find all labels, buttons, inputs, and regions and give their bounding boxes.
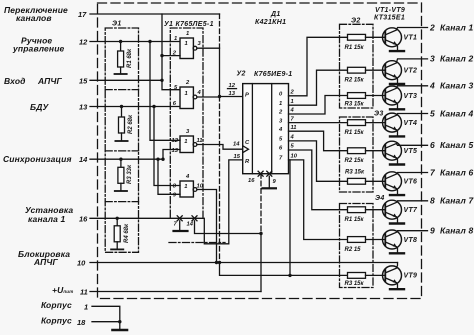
- wire pin18 body: [92, 322, 120, 330]
- svg-text:6: 6: [430, 140, 435, 150]
- svg-text:11: 11: [291, 125, 297, 131]
- svg-text:10: 10: [77, 259, 86, 268]
- svg-text:КТ315Е1: КТ315Е1: [374, 15, 405, 22]
- resistor R2 base VT2: [345, 67, 386, 83]
- svg-text:VT1-VT9: VT1-VT9: [375, 7, 405, 14]
- svg-text:У2: У2: [237, 71, 246, 78]
- resistor R2 base VT5: [345, 148, 386, 164]
- wire pin14 sync: [90, 158, 163, 160]
- svg-text:13: 13: [229, 91, 236, 97]
- svg-text:1: 1: [186, 31, 189, 37]
- svg-text:15: 15: [234, 154, 241, 160]
- U2 pin 12/13 fraction label: [229, 83, 236, 97]
- U1 pin7 ground: [174, 216, 188, 231]
- svg-text:Корпус: Корпус: [41, 316, 72, 326]
- svg-text:14: 14: [79, 155, 88, 164]
- svg-text:14: 14: [187, 222, 194, 228]
- gate U1.1: [172, 31, 202, 59]
- svg-text:Э1: Э1: [112, 21, 122, 28]
- node channel 1 output: [429, 22, 473, 32]
- IC U1 package box: [170, 28, 203, 217]
- resistor R1 68k: [115, 40, 134, 74]
- resistor R3 base VT6: [345, 169, 385, 184]
- resistor R3 base VT9: [345, 273, 386, 288]
- svg-text:12: 12: [79, 38, 88, 47]
- gate U1.2: [173, 80, 202, 109]
- resistor R1 base VT4: [345, 120, 386, 136]
- wire pin13 BDU: [90, 106, 180, 108]
- svg-text:4: 4: [429, 81, 435, 91]
- svg-text:1: 1: [185, 91, 188, 97]
- svg-text:3: 3: [430, 54, 435, 64]
- U2 pin16 X mark: [258, 171, 263, 176]
- node channel 6 output: [430, 167, 473, 177]
- wire BDU to gate4.in8: [154, 107, 180, 186]
- wire pin1 body: [92, 306, 120, 321]
- node 17 vertical down to blocking line: [219, 14, 221, 48]
- svg-text:1: 1: [279, 101, 282, 107]
- svg-text:17: 17: [78, 10, 87, 19]
- gate U1.4: [173, 174, 204, 199]
- node channel 3 output: [429, 81, 473, 91]
- enclosure E3: [340, 117, 374, 192]
- gate U1.3: [172, 129, 203, 154]
- enclosure E4: [340, 204, 374, 288]
- enclosure E1: [105, 28, 138, 252]
- transistor VT2: [383, 59, 428, 84]
- svg-text:VT9: VT9: [404, 273, 418, 280]
- wire sync to gate3.in13: [163, 150, 180, 160]
- resistor R1 base VT7: [345, 207, 386, 223]
- resistor R1 base VT1: [345, 34, 386, 50]
- svg-text:R1 15к: R1 15к: [345, 45, 365, 51]
- resistor R2 base VT8: [345, 237, 386, 253]
- wire pin16 channel set: [90, 160, 243, 244]
- wire pin15 AFC input: [90, 79, 162, 81]
- svg-text:АПЧГ: АПЧГ: [37, 76, 63, 86]
- svg-text:Канал 4: Канал 4: [440, 108, 473, 118]
- junction pins1-18: [118, 320, 121, 323]
- svg-text:Канал 8: Канал 8: [440, 226, 473, 236]
- svg-text:13: 13: [79, 103, 88, 112]
- transistor VT7: [383, 200, 428, 223]
- svg-text:16: 16: [248, 178, 255, 184]
- svg-text:Канал 2: Канал 2: [440, 54, 473, 64]
- wire U2 out2 to VT3: [289, 96, 348, 115]
- svg-text:14: 14: [233, 142, 240, 148]
- node channel 7 output: [430, 196, 474, 206]
- transistor VT9: [383, 263, 418, 290]
- svg-text:К421КН1: К421КН1: [255, 19, 286, 26]
- svg-text:11: 11: [197, 138, 203, 144]
- transistor VT1: [383, 28, 428, 52]
- wire gate4 output down to blocking line: [197, 190, 217, 263]
- wire U2 out1 to VT2: [289, 70, 348, 105]
- svg-text:1: 1: [184, 184, 187, 190]
- wire U2 out7 to VT8: [289, 160, 348, 240]
- svg-text:R2 15к: R2 15к: [345, 158, 365, 164]
- transistor VT3: [383, 86, 428, 110]
- wire gate3 output to U2.C: [197, 145, 243, 150]
- wire pin11 +U rail: [90, 291, 261, 293]
- svg-text:Д1: Д1: [270, 11, 281, 18]
- svg-text:У1 К765ЛЕ5-1: У1 К765ЛЕ5-1: [164, 21, 214, 28]
- svg-text:канала 1: канала 1: [28, 214, 66, 224]
- svg-text:10: 10: [291, 153, 298, 159]
- wire U2 out6 to VT7: [289, 150, 348, 210]
- svg-text:VT3: VT3: [404, 93, 418, 100]
- node channel 8 output: [430, 226, 473, 236]
- svg-text:К765ИЕ9-1: К765ИЕ9-1: [254, 71, 293, 78]
- svg-text:каналов: каналов: [16, 13, 52, 23]
- counter U2 symbol: [237, 71, 293, 174]
- svg-text:управление: управление: [12, 44, 65, 54]
- svg-text:1: 1: [84, 303, 88, 312]
- wire gate1 output to U2.P node: [197, 48, 220, 96]
- svg-text:R3 15к: R3 15к: [345, 281, 365, 287]
- wire pin12 manual control: [90, 41, 180, 43]
- svg-text:Вход: Вход: [4, 76, 26, 86]
- wire U2 out3 to VT4: [289, 122, 348, 124]
- wire gate1 input2 node: [162, 55, 180, 57]
- U2 outputs digits: [278, 92, 283, 162]
- wire v150 12-line to gate3.in12: [150, 42, 180, 141]
- svg-text:R2 68к: R2 68к: [128, 114, 134, 134]
- node channel 4 output: [430, 108, 473, 118]
- wire U2 out0 to VT1: [289, 37, 348, 96]
- titles top: [255, 7, 405, 26]
- wire sync to gate4.in9: [158, 159, 180, 194]
- svg-text:VT4: VT4: [404, 120, 418, 127]
- svg-text:10: 10: [197, 184, 204, 190]
- svg-text:Синхронизация: Синхронизация: [3, 154, 72, 164]
- svg-text:1: 1: [184, 139, 187, 145]
- wire U2 out5 to VT6: [289, 141, 348, 181]
- transistor VT4: [383, 113, 428, 136]
- svg-text:5: 5: [430, 108, 435, 118]
- svg-text:R1 68к: R1 68к: [127, 48, 133, 68]
- left input labels: [3, 5, 88, 327]
- svg-text:VT5: VT5: [404, 148, 418, 155]
- svg-text:1: 1: [174, 36, 177, 42]
- svg-text:12: 12: [172, 138, 179, 144]
- U2 pin15 label: [234, 154, 241, 160]
- wire gate2 output joining node: [197, 96, 220, 98]
- enclosure E2: [340, 24, 374, 108]
- svg-text:Э2: Э2: [351, 18, 361, 25]
- wire pin10 AFC block: [90, 262, 398, 264]
- svg-text:R3 15к: R3 15к: [345, 101, 365, 107]
- resistor R3 base VT3: [345, 93, 386, 108]
- svg-text:Канал 5: Канал 5: [440, 140, 473, 150]
- svg-text:R2 15к: R2 15к: [345, 78, 365, 84]
- node channel 2 output: [430, 54, 473, 64]
- svg-text:VT2: VT2: [404, 68, 418, 75]
- svg-text:VT1: VT1: [404, 35, 418, 42]
- svg-text:9: 9: [430, 226, 435, 236]
- U1 pin14 +U: [187, 216, 262, 234]
- svg-text:R4 68к: R4 68к: [124, 223, 130, 243]
- svg-text:VT8: VT8: [404, 237, 418, 244]
- svg-text:11: 11: [80, 288, 88, 297]
- svg-text:Корпус: Корпус: [41, 300, 72, 310]
- svg-text:8: 8: [430, 196, 435, 206]
- U2 pin8 ground: [267, 171, 272, 176]
- svg-text:Канал 6: Канал 6: [440, 167, 473, 177]
- U2 pin14 label: [233, 142, 240, 148]
- ground: [113, 329, 128, 332]
- U2 output pin numbers: [290, 90, 298, 160]
- svg-text:БДУ: БДУ: [30, 102, 50, 112]
- wire U2 out4 to VT5: [289, 131, 348, 151]
- wire pin17: [90, 13, 220, 15]
- wire node 17/15 vertical: [162, 14, 180, 90]
- transistor VT8: [383, 230, 428, 253]
- svg-text:P: P: [245, 93, 249, 99]
- svg-text:R3 33к: R3 33к: [127, 164, 133, 184]
- svg-text:R1 15к: R1 15к: [345, 217, 365, 223]
- svg-text:R3 15к: R3 15к: [345, 169, 365, 175]
- wire U1 lower boundary dash-dot: [169, 242, 225, 244]
- svg-text:15: 15: [79, 77, 88, 86]
- transistor VT6: [383, 172, 428, 195]
- node channel 5 output: [430, 140, 473, 150]
- svg-text:Канал 7: Канал 7: [440, 196, 474, 206]
- wire out7 branch down to VT9 base line: [289, 160, 291, 276]
- wire +U feed to U2.16: [260, 174, 262, 234]
- resistor R4 68k: [111, 217, 130, 250]
- svg-text:R1 15к: R1 15к: [345, 130, 365, 136]
- svg-text:VT7: VT7: [404, 207, 419, 214]
- svg-text:1: 1: [185, 41, 188, 47]
- svg-text:R2 15: R2 15: [345, 247, 362, 253]
- svg-text:1: 1: [291, 99, 294, 105]
- resistor R3 33k: [115, 158, 133, 192]
- svg-text:18: 18: [77, 318, 86, 327]
- wire to U2.P input: [220, 96, 243, 98]
- module D1 outer dashed box: [98, 3, 422, 299]
- svg-text:Канал 3: Канал 3: [440, 81, 473, 91]
- svg-text:Канал 1: Канал 1: [440, 22, 473, 32]
- wire VT9 base line: [290, 274, 348, 276]
- svg-text:Э4: Э4: [375, 195, 385, 202]
- svg-text:АПЧГ: АПЧГ: [33, 257, 59, 267]
- resistor R2 68k: [115, 105, 134, 141]
- svg-text:2: 2: [429, 22, 435, 32]
- svg-text:Э3: Э3: [374, 111, 384, 118]
- svg-text:16: 16: [79, 215, 88, 224]
- svg-text:VT6: VT6: [404, 179, 418, 186]
- transistor VT5: [383, 141, 428, 164]
